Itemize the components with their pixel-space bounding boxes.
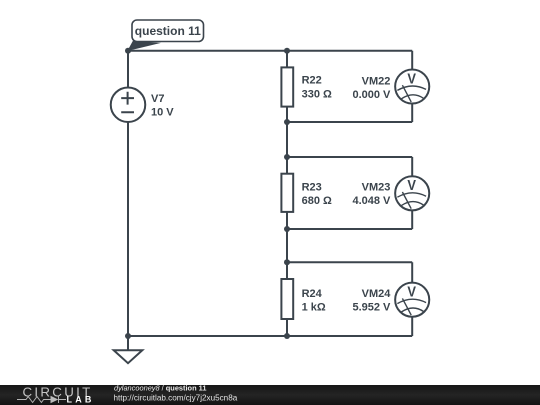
junction ground rail / middle rail (284, 333, 290, 339)
resistor R23 (281, 174, 332, 212)
svg-text:R24: R24 (302, 288, 323, 300)
svg-text:dylancooney8 / question 11: dylancooney8 / question 11 (114, 383, 206, 392)
junction top rail / middle rail (284, 48, 290, 54)
svg-text:330 Ω: 330 Ω (302, 88, 332, 100)
svg-text:LAB: LAB (67, 395, 95, 405)
svg-text:VM22: VM22 (362, 75, 391, 87)
junction branch1 bottom / middle rail (284, 119, 290, 125)
junction branch2 top / middle rail (284, 154, 290, 160)
svg-text:R22: R22 (302, 75, 322, 87)
resistor R22 (281, 67, 332, 106)
wire branch3 top rail (287, 261, 412, 263)
wire left rail (through V7 down to ground rail) (127, 51, 129, 336)
voltmeter VM24 (352, 283, 429, 317)
wire branch2 top rail (287, 156, 412, 158)
junction branch3 top / middle rail (284, 259, 290, 265)
wire top rail (node A to VM22 branch) (128, 50, 412, 52)
svg-text:question 11: question 11 (135, 24, 201, 38)
node A junction (top of V7, annotated) (125, 48, 131, 54)
wire branch2 bottom rail (287, 228, 412, 230)
ground (114, 336, 143, 363)
svg-text:10 V: 10 V (151, 107, 174, 119)
svg-text:4.048 V: 4.048 V (352, 195, 391, 207)
svg-text:VM23: VM23 (362, 182, 391, 194)
svg-text:1 kΩ: 1 kΩ (302, 302, 326, 314)
wire right rail segments (through VM22, VM23, VM24) (411, 51, 413, 336)
svg-text:5.952 V: 5.952 V (352, 302, 391, 314)
junction ground rail / left rail (125, 333, 131, 339)
svg-text:http://circuitlab.com/cjy7j2xu: http://circuitlab.com/cjy7j2xu5cn8a (114, 393, 238, 402)
junction branch2 bottom / middle rail (284, 226, 290, 232)
wire bottom ground rail (128, 335, 412, 337)
resistor R24 (281, 279, 325, 319)
voltage source V7 (111, 87, 175, 122)
svg-text:0.000 V: 0.000 V (352, 89, 391, 101)
wire branch1 bottom rail (287, 121, 412, 123)
voltmeter VM22 (352, 69, 429, 103)
svg-text:V7: V7 (151, 93, 164, 105)
voltmeter VM23 (352, 176, 429, 210)
footer bar (0, 385, 540, 405)
svg-text:VM24: VM24 (362, 288, 392, 300)
wire middle rail (through R22, R23, R24) (286, 51, 288, 336)
annotation flag "question 11" (127, 20, 203, 51)
svg-text:680 Ω: 680 Ω (302, 195, 332, 207)
svg-text:R23: R23 (302, 181, 322, 193)
CircuitLab logo (17, 384, 95, 404)
